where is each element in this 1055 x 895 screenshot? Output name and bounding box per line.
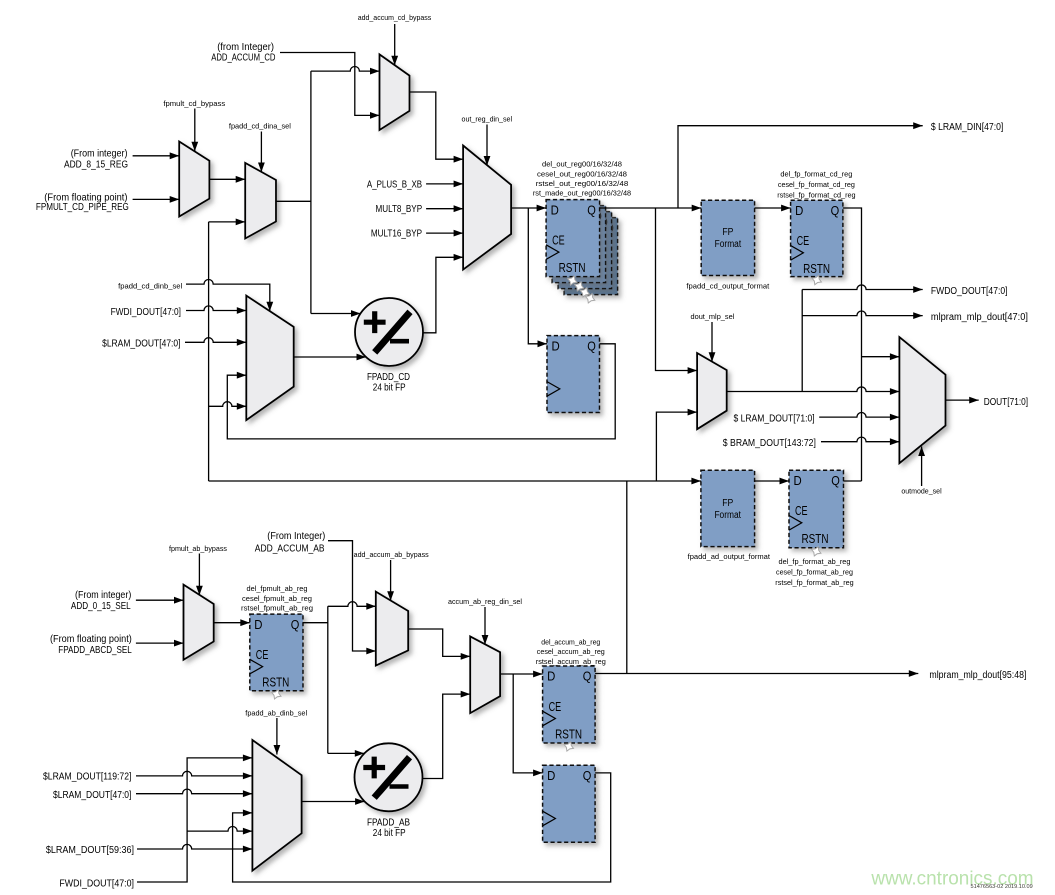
wire FPMULT_CD_PIPE_REG in: [133, 198, 180, 200]
wire branch LRAM_DIN out: [678, 126, 923, 208]
wire dout mux in1 from stack Q: [656, 208, 698, 371]
wire M8 out to M9 in1: [408, 629, 470, 656]
adder FPADD_CD: [355, 298, 423, 366]
svg-text:Q: Q: [831, 473, 840, 488]
svg-text:$LRAM_DOUT[47:0]: $LRAM_DOUT[47:0]: [53, 790, 132, 801]
wire DOUT out: [946, 399, 979, 401]
svg-text:FWDI_DOUT[47:0]: FWDI_DOUT[47:0]: [59, 878, 134, 889]
svg-text:CE: CE: [797, 233, 810, 248]
wire M2 in2: [209, 221, 246, 223]
wire fpmult_ab_reg Q branch: [303, 622, 328, 624]
svg-text:A_PLUS_B_XB: A_PLUS_B_XB: [367, 180, 423, 191]
svg-text:ADD_ACCUM_CD: ADD_ACCUM_CD: [211, 52, 275, 63]
svg-text:dout_mlp_sel: dout_mlp_sel: [691, 312, 735, 321]
mux out_reg_din M4: [463, 146, 511, 270]
wire M2 out: [276, 200, 311, 202]
svg-text:del_accum_ab_reg: del_accum_ab_reg: [541, 637, 600, 646]
select accum_ab_reg_din_sel: [484, 607, 486, 645]
wire M1 out to M2 in1: [209, 178, 245, 180]
wire M10 out to adder AB: [302, 801, 365, 803]
svg-text:DOUT[71:0]: DOUT[71:0]: [984, 397, 1029, 408]
clock icons on register stack: [568, 276, 577, 285]
svg-text:mlpram_mlp_dout[95:48]: mlpram_mlp_dout[95:48]: [929, 670, 1026, 681]
svg-text:Format: Format: [715, 239, 742, 250]
select dout_mlp_sel: [711, 322, 713, 362]
register del_accum delay AB: [543, 765, 596, 842]
svg-text:D: D: [547, 768, 555, 783]
wire to adder AB in1: [328, 752, 365, 754]
svg-text:RSTN: RSTN: [802, 531, 829, 546]
svg-text:fpadd_cd_dinb_sel: fpadd_cd_dinb_sel: [118, 282, 182, 291]
svg-text:FP: FP: [722, 498, 733, 509]
wire LRAM_DOUT 119:72 in: [136, 771, 252, 776]
wire ADD_ACCUM_CD to mux M3 in2: [280, 53, 380, 116]
select fpadd_cd_dina_sel: [260, 132, 262, 173]
wire ADD_8_15_REG in: [133, 155, 180, 157]
wire line A to FP Format AD: [209, 480, 701, 482]
wire reg stack Q to FP Format CD: [600, 207, 702, 209]
svg-text:fpmult_ab_bypass: fpmult_ab_bypass: [169, 544, 227, 553]
svg-text:Q: Q: [583, 768, 592, 783]
svg-text:51476563-02 2019.10.09: 51476563-02 2019.10.09: [971, 884, 1033, 890]
mux fpmult_ab M11: [184, 585, 214, 660]
select out_reg_din_sel: [486, 125, 488, 166]
wire M5 out to adder in2: [294, 356, 366, 358]
svg-text:$ BRAM_DOUT[143:72]: $ BRAM_DOUT[143:72]: [723, 438, 816, 449]
register accum_ab_reg: [543, 666, 596, 743]
wire fpadd_cd_dinb_sel: [186, 280, 270, 312]
wire M11 out to fpmult_ab_reg: [214, 622, 250, 624]
svg-text:D: D: [795, 203, 803, 218]
vertical accum Q to line A: [626, 481, 628, 674]
svg-text:(From integer): (From integer): [71, 148, 128, 159]
mux fpadd_ab_dinb M10: [252, 740, 301, 871]
svg-text:outmode_sel: outmode_sel: [901, 486, 942, 495]
wire FP Format AD to fp_format_ab_reg: [755, 480, 789, 482]
svg-text:(From integer): (From integer): [75, 590, 131, 601]
wire adder CD out to M4 in5: [423, 257, 463, 333]
svg-text:ADD_ACCUM_AB: ADD_ACCUM_AB: [255, 543, 325, 554]
wire adder AB out to M9 in2: [423, 694, 471, 778]
svg-text:$LRAM_DOUT[47:0]: $LRAM_DOUT[47:0]: [102, 338, 181, 349]
select fpmult_cd_bypass: [194, 109, 196, 152]
svg-text:rstsel_fp_format_ab_reg: rstsel_fp_format_ab_reg: [775, 578, 853, 587]
block FP Format AD: [701, 470, 755, 546]
svg-text:cesel_fp_format_ab_reg: cesel_fp_format_ab_reg: [776, 568, 853, 577]
branch to delay reg CD: [528, 208, 547, 344]
wire FP Format CD to fp_format_cd_reg: [755, 207, 791, 209]
wire LRAM_DOUT 59:36 in: [137, 844, 252, 849]
svg-text:fpadd_ab_dinb_sel: fpadd_ab_dinb_sel: [245, 708, 307, 717]
svg-text:MULT8_BYP: MULT8_BYP: [376, 204, 423, 215]
svg-text:fpmult_cd_bypass: fpmult_cd_bypass: [163, 99, 225, 108]
wire to outmode mux in1: [862, 356, 900, 358]
svg-text:MULT16_BYP: MULT16_BYP: [371, 229, 423, 240]
register fp_format_cd_reg: [791, 200, 843, 276]
svg-text:cesel_accum_ab_reg: cesel_accum_ab_reg: [537, 647, 605, 656]
svg-text:CE: CE: [549, 699, 562, 714]
mux add_accum_cd M3: [380, 54, 410, 130]
wire A_PLUS_B_XB: [426, 183, 463, 185]
svg-text:FWDO_DOUT[47:0]: FWDO_DOUT[47:0]: [931, 286, 1008, 297]
svg-text:D: D: [552, 338, 560, 353]
mux add_accum_ab M8: [376, 592, 408, 666]
svg-text:RSTN: RSTN: [555, 727, 582, 742]
wire MULT8_BYP: [426, 208, 463, 210]
svg-text:rstsel_fpmult_ab_reg: rstsel_fpmult_ab_reg: [241, 603, 313, 612]
wire M3 in1 with hop: [311, 67, 380, 72]
svg-text:rstsel_out_reg00/16/32/48: rstsel_out_reg00/16/32/48: [536, 179, 629, 188]
wire to add_accum_ab mux in1: [328, 602, 376, 607]
svg-text:Q: Q: [831, 203, 840, 218]
svg-text:ADD_0_15_SEL: ADD_0_15_SEL: [71, 601, 131, 612]
svg-text:Q: Q: [583, 669, 592, 684]
wire M9 out to accum_ab_reg: [500, 673, 542, 675]
wire delay reg CD feedback to M5 in3: [227, 344, 615, 439]
svg-text:FP: FP: [722, 227, 733, 238]
svg-text:add_accum_ab_bypass: add_accum_ab_bypass: [354, 550, 429, 559]
svg-text:RSTN: RSTN: [803, 261, 830, 276]
wire MULT16_BYP: [426, 232, 463, 234]
branch to delay reg AB: [513, 674, 542, 773]
svg-text:ADD_8_15_REG: ADD_8_15_REG: [64, 159, 128, 170]
block FP Format CD: [701, 200, 754, 275]
wire mlpram_mlp_dout 47:0 out: [802, 311, 923, 316]
wire M4 out to reg stack: [511, 207, 546, 209]
wire LRAM_DOUT 71:0 in: [819, 413, 899, 418]
wire fp_format_ab_reg Q join: [844, 480, 862, 482]
svg-text:$LRAM_DOUT[59:36]: $LRAM_DOUT[59:36]: [46, 845, 134, 856]
svg-text:CE: CE: [795, 503, 808, 518]
svg-text:D: D: [547, 669, 555, 684]
svg-text:fpadd_cd_dina_sel: fpadd_cd_dina_sel: [229, 122, 291, 131]
svg-text:cesel_fpmult_ab_reg: cesel_fpmult_ab_reg: [242, 594, 312, 603]
svg-text:RSTN: RSTN: [559, 260, 586, 275]
svg-text:FPMULT_CD_PIPE_REG: FPMULT_CD_PIPE_REG: [36, 202, 129, 213]
wire accum_ab_reg Q to mlpram 95:48 out: [595, 673, 918, 675]
svg-text:cesel_fp_format_cd_reg: cesel_fp_format_cd_reg: [778, 180, 855, 189]
svg-text:24 bit FP: 24 bit FP: [373, 382, 406, 393]
svg-text:CE: CE: [256, 647, 269, 662]
select fpmult_ab_bypass: [198, 554, 200, 596]
wire delay reg AB Q feedback: [233, 773, 611, 882]
wire M3 out to M4 in1: [410, 92, 464, 159]
svg-text:24 bit FP: 24 bit FP: [373, 828, 406, 839]
wire FWDI_DOUT 47:0 CD: [186, 306, 246, 311]
svg-text:rstsel_fp_format_cd_reg: rstsel_fp_format_cd_reg: [777, 190, 855, 199]
select outmode_sel arrow up: [921, 447, 923, 487]
register fpmult_ab_reg: [250, 614, 303, 691]
svg-text:fpadd_ad_output_format: fpadd_ad_output_format: [688, 552, 770, 561]
wire LRAM_DOUT 47:0 bottom in: [136, 789, 252, 794]
svg-text:rst_made_out_reg00/16/32/48: rst_made_out_reg00/16/32/48: [533, 189, 631, 198]
svg-text:accum_ab_reg_din_sel: accum_ab_reg_din_sel: [448, 597, 522, 606]
svg-text:del_fp_format_ab_reg: del_fp_format_ab_reg: [779, 557, 851, 566]
wire ADD_ACCUM_AB: [328, 541, 376, 651]
select add_accum_ab_bypass: [390, 560, 392, 601]
vertical node V1 x=208.6: [208, 222, 210, 481]
svg-text:$ LRAM_DOUT[71:0]: $ LRAM_DOUT[71:0]: [734, 414, 815, 425]
svg-text:fpadd_cd_output_format: fpadd_cd_output_format: [686, 281, 769, 290]
mux accum_ab_reg_din M9: [470, 636, 500, 713]
mux dout_mlp M7: [697, 353, 727, 429]
wire M5 in4: [209, 402, 247, 407]
svg-text:(From floating point): (From floating point): [50, 634, 132, 645]
svg-text:rstsel_accum_ab_reg: rstsel_accum_ab_reg: [536, 657, 606, 666]
wire adder CD in1: [311, 313, 361, 315]
svg-text:$LRAM_DOUT[119:72]: $LRAM_DOUT[119:72]: [43, 772, 132, 783]
svg-text:$ LRAM_DIN[47:0]: $ LRAM_DIN[47:0]: [931, 122, 1004, 133]
adder FPADD_AB: [355, 743, 423, 811]
mux fpmult_cd_bypass M1: [179, 142, 209, 217]
svg-text:cesel_out_reg00/16/32/48: cesel_out_reg00/16/32/48: [537, 169, 627, 178]
vertical node mux2 output to M3 in1 and adder in1: [310, 71, 312, 313]
svg-text:out_reg_din_sel: out_reg_din_sel: [462, 115, 513, 124]
svg-text:D: D: [551, 202, 559, 217]
wire FPADD_ABCD_SEL in: [136, 642, 184, 644]
svg-text:(from Integer): (from Integer): [217, 42, 274, 53]
svg-text:Q: Q: [587, 202, 596, 217]
vertical x=802.2 to FWDO branch: [801, 290, 803, 392]
register del_out delay CD: [547, 336, 600, 413]
svg-text:del_out_reg00/16/32/48: del_out_reg00/16/32/48: [542, 160, 622, 169]
mux fpadd_cd_dinb M5: [246, 296, 293, 421]
register fp_format_ab_reg: [789, 470, 844, 548]
wire ADD_0_15_SEL in: [136, 599, 184, 601]
wire dout mux in2 from line A: [656, 412, 697, 481]
svg-text:Format: Format: [714, 510, 741, 521]
register out_reg front: [546, 200, 600, 277]
svg-text:Q: Q: [291, 617, 300, 632]
wire FWDO_DOUT out: [802, 285, 923, 290]
svg-text:mlpram_mlp_dout[47:0]: mlpram_mlp_dout[47:0]: [931, 312, 1028, 323]
svg-text:del_fp_format_cd_reg: del_fp_format_cd_reg: [780, 170, 852, 179]
svg-text:Q: Q: [587, 338, 596, 353]
svg-text:D: D: [254, 617, 262, 632]
wire dout mux out to outmode in2: [727, 387, 900, 392]
register stack out_reg back sheets: [564, 218, 618, 295]
mux outmode M6: [899, 337, 945, 463]
svg-text:FWDI_DOUT[47:0]: FWDI_DOUT[47:0]: [111, 307, 182, 318]
svg-text:CE: CE: [552, 232, 565, 247]
wire BRAM_DOUT 143:72 in: [821, 437, 899, 442]
wire fp_format regs Q vertical x=861.5: [843, 208, 862, 481]
svg-text:(From Integer): (From Integer): [267, 531, 325, 542]
svg-text:del_fpmult_ab_reg: del_fpmult_ab_reg: [247, 584, 308, 593]
svg-text:add_accum_cd_bypass: add_accum_cd_bypass: [358, 13, 432, 22]
wire FWDI bottom to M10 in1: [137, 758, 252, 882]
select fpadd_ab_dinb_sel: [276, 718, 278, 755]
mux fpadd_cd_dina M2: [245, 163, 276, 239]
wire M10 in5: [187, 827, 252, 832]
wire LRAM_DOUT 47:0 CD: [185, 338, 246, 343]
svg-text:FPADD_ABCD_SEL: FPADD_ABCD_SEL: [58, 645, 132, 656]
svg-text:RSTN: RSTN: [262, 675, 289, 690]
svg-text:D: D: [794, 473, 802, 488]
select add_accum_cd_bypass: [394, 24, 396, 65]
